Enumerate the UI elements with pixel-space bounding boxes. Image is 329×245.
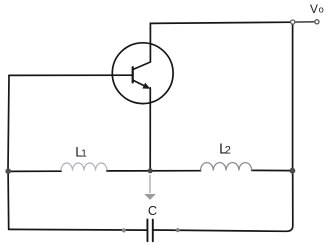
svg-text:V: V <box>310 2 318 16</box>
svg-text:o: o <box>319 4 324 14</box>
svg-text:C: C <box>148 203 157 218</box>
svg-text:1: 1 <box>81 149 87 160</box>
svg-text:2: 2 <box>225 145 231 157</box>
